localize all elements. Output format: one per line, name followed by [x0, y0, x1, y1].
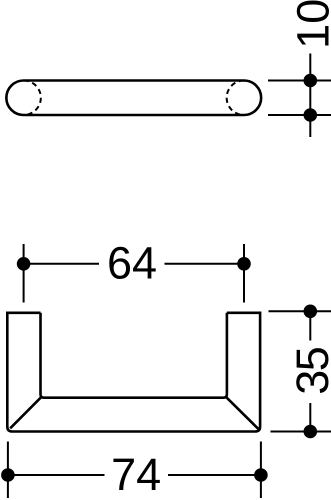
hidden hole circle left (dashed) [24, 81, 41, 116]
front view: right chamfer diagonal [226, 397, 259, 429]
svg-text:35: 35 [287, 347, 331, 395]
front view: left chamfer diagonal [10, 397, 42, 429]
hidden hole circle right (dashed) [227, 81, 244, 116]
dim 10: upper dot [304, 74, 318, 88]
front view: outer outline of U-channel [7, 313, 260, 432]
dim 64: dimension line left segment [24, 263, 99, 265]
svg-text:10: 10 [288, 0, 331, 49]
dim 64: right dot [237, 257, 251, 271]
dim 10: dimension line [309, 54, 311, 138]
dim 35: upper dot [304, 305, 318, 319]
dim 64: left dot [17, 257, 31, 271]
dim 74: left extension line [7, 442, 9, 499]
dim 64: right extension line [243, 244, 245, 303]
dim 74: left dot [1, 468, 15, 482]
front view: inner outline of U-channel [41, 313, 227, 398]
dim 35: dimension line upper segment [309, 311, 311, 340]
dim 64: left extension line [23, 244, 25, 303]
dim 35: upper extension line [269, 310, 331, 312]
dim 74: right extension line [260, 442, 262, 499]
dim 74: dimension line left segment [8, 474, 105, 476]
dim 74: dimension line right segment [168, 474, 261, 476]
svg-text:74: 74 [111, 449, 161, 500]
dim 35: dimension line lower segment [309, 403, 311, 432]
dim 35: lower extension line [271, 431, 331, 433]
dim 10: upper extension line [268, 80, 331, 82]
dim 10: lower extension line [268, 114, 331, 116]
dim 10: lower dot [304, 108, 318, 122]
dim 64: dimension line right segment [165, 263, 245, 265]
top view: handle capsule outline [6, 81, 261, 116]
svg-text:64: 64 [107, 237, 157, 288]
dim 35: lower dot [304, 425, 318, 439]
dim 74: right dot [254, 468, 268, 482]
